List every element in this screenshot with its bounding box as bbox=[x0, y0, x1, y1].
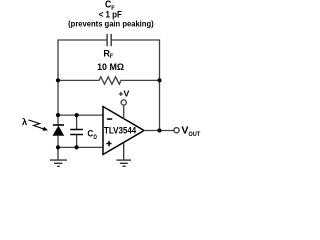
node (CD top) bbox=[75, 113, 79, 117]
+V supply terminal bbox=[118, 89, 129, 118]
light arrow bbox=[28, 120, 48, 131]
node (CD bottom) bbox=[75, 145, 79, 149]
capacitor CF bbox=[107, 34, 111, 46]
ground (photodiode) bbox=[50, 147, 67, 166]
node (diode top) bbox=[56, 113, 60, 117]
svg-text:TLV3544: TLV3544 bbox=[104, 125, 137, 136]
wire (top-right horizontal + right vertical of loop) bbox=[112, 40, 160, 131]
node (output junction) bbox=[157, 128, 161, 132]
terminal VOUT bbox=[174, 128, 179, 133]
svg-text:OUT: OUT bbox=[188, 131, 200, 138]
svg-text:(prevents gain peaking): (prevents gain peaking) bbox=[68, 19, 154, 29]
wire (non-inverting bottom rail) bbox=[58, 146, 103, 148]
op-amp U1 TLV3544 bbox=[103, 107, 144, 155]
node (RF left junction) bbox=[56, 78, 60, 82]
photodiode D1 bbox=[53, 115, 65, 147]
svg-text:D: D bbox=[94, 135, 98, 141]
svg-text:10 MΩ: 10 MΩ bbox=[97, 61, 124, 72]
svg-text:+V: +V bbox=[118, 89, 129, 98]
node (diode bottom) bbox=[56, 145, 60, 149]
wire (left vertical + top-left horizontal of CF loop) bbox=[58, 40, 107, 115]
wire (inverting input rail) bbox=[58, 114, 103, 116]
wire (output) bbox=[144, 130, 174, 132]
svg-text:λ: λ bbox=[22, 117, 28, 128]
ground (op-amp) bbox=[116, 142, 131, 166]
node (RF right junction) bbox=[157, 78, 161, 82]
resistor RF bbox=[58, 77, 160, 84]
capacitor CD bbox=[70, 115, 83, 147]
svg-text:F: F bbox=[110, 54, 113, 60]
